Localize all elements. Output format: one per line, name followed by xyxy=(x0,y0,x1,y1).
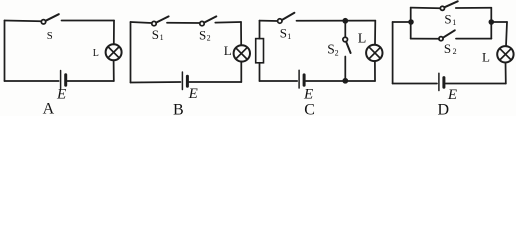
svg-text:2: 2 xyxy=(453,47,457,56)
svg-text:A: A xyxy=(43,101,55,117)
svg-text:S: S xyxy=(444,11,451,26)
svg-text:E: E xyxy=(188,86,198,102)
svg-text:S: S xyxy=(327,42,335,57)
svg-text:S: S xyxy=(47,30,53,42)
svg-text:L: L xyxy=(358,32,367,47)
svg-text:E: E xyxy=(303,86,313,102)
svg-text:2: 2 xyxy=(335,49,339,58)
svg-text:B: B xyxy=(173,101,184,116)
svg-text:L: L xyxy=(482,50,490,65)
svg-text:C: C xyxy=(304,101,315,116)
svg-text:1: 1 xyxy=(452,18,456,27)
svg-text:S: S xyxy=(152,27,159,42)
svg-text:1: 1 xyxy=(160,33,164,42)
svg-text:E: E xyxy=(56,87,66,103)
svg-text:2: 2 xyxy=(207,34,211,43)
svg-text:S: S xyxy=(280,26,287,41)
svg-text:S: S xyxy=(444,41,451,56)
svg-text:S: S xyxy=(199,28,206,43)
svg-text:L: L xyxy=(93,48,99,59)
svg-text:1: 1 xyxy=(287,32,291,41)
svg-text:D: D xyxy=(438,101,450,116)
svg-text:L: L xyxy=(224,43,232,58)
